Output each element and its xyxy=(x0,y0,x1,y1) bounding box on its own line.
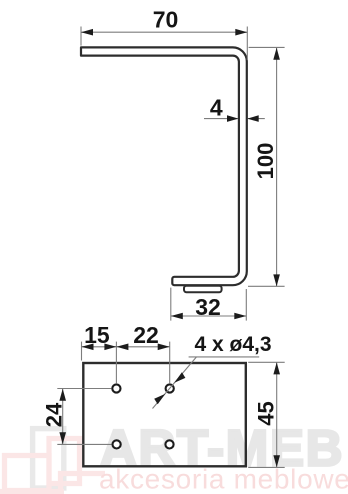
svg-text:22: 22 xyxy=(133,322,159,348)
dim 4 arrows xyxy=(227,115,259,122)
svg-text:4 x ø4,3: 4 x ø4,3 xyxy=(195,333,272,356)
dim 45 extension lines xyxy=(248,362,285,467)
svg-text:70: 70 xyxy=(153,6,179,32)
dim 22 line xyxy=(116,346,169,348)
svg-text:15: 15 xyxy=(84,322,110,348)
dim 45 line xyxy=(276,363,278,468)
hole top-right xyxy=(166,384,174,392)
base plate rectangle xyxy=(83,363,246,466)
svg-text:45: 45 xyxy=(254,401,279,425)
dim 100 arrows xyxy=(273,48,280,287)
dim 100 extension lines xyxy=(248,47,285,286)
hole bottom-right xyxy=(165,440,173,448)
svg-text:akcesoria meblowe: akcesoria meblowe xyxy=(99,464,348,494)
hole label leader arrows xyxy=(154,372,185,404)
dim 100 line xyxy=(276,48,278,286)
dim 70 arrows xyxy=(81,29,247,36)
dim 24 extension lines xyxy=(57,389,111,445)
dim 15 line xyxy=(82,346,117,348)
dim 4 lines xyxy=(204,118,265,120)
svg-text:32: 32 xyxy=(195,294,221,320)
svg-text:24: 24 xyxy=(42,402,67,427)
svg-text:4: 4 xyxy=(210,94,223,120)
dim 45 arrows xyxy=(273,362,280,467)
watermark logo gray window frame xyxy=(33,429,64,488)
pad under foot xyxy=(184,286,222,292)
dim 22 arrows xyxy=(116,344,169,351)
watermark logo pink window frames xyxy=(0,439,105,494)
dim 24 line xyxy=(62,389,64,445)
dim 32 arrows xyxy=(171,313,247,320)
bracket profile outline xyxy=(81,47,247,285)
svg-text:100: 100 xyxy=(253,143,278,180)
dim 32 line xyxy=(171,315,247,317)
dim 70 line xyxy=(81,31,247,33)
dim 70 extension lines xyxy=(81,27,247,61)
dim 15/22 extension lines xyxy=(82,342,170,384)
hole label 4 x 04,3 leader xyxy=(153,357,260,409)
dim 24 arrows xyxy=(59,389,66,445)
dim 15 arrows xyxy=(82,344,117,351)
dim 32 extension lines xyxy=(171,288,247,321)
hole top-left xyxy=(112,384,120,392)
hole bottom-left xyxy=(113,440,121,448)
